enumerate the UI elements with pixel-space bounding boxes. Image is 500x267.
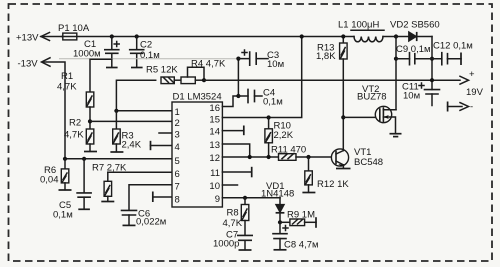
svg-text:C8 4,7м: C8 4,7м [284,240,319,251]
junction drain node [394,34,398,38]
svg-text:+13V: +13V [16,33,39,44]
svg-text:+: + [469,69,475,80]
svg-text:C9 0,1м: C9 0,1м [396,44,431,55]
pin 4 stub [151,141,173,150]
junction C4 [236,94,240,98]
wire pin 12 line [222,156,278,158]
wire top +13V rail [112,36,354,38]
capacitor C12 0,1u [432,41,473,66]
svg-text:10м: 10м [267,59,284,70]
svg-text:0,1м: 0,1м [53,210,73,221]
svg-text:9: 9 [215,194,220,205]
resistor R3 2,4K [110,111,141,152]
svg-text:C12 0,1м: C12 0,1м [433,41,473,52]
resistor R5 12K [146,65,178,84]
svg-text:C2: C2 [140,40,152,51]
junction pin15 rail [300,34,304,38]
svg-text:P1 10A: P1 10A [58,23,90,34]
transistor VT2 BUZ78 [357,84,402,137]
pin 14 stub [222,126,243,136]
wire R13 bottom to VT1 collector [342,59,344,151]
junction R12 base [306,155,310,159]
capacitor C9 0,1u [396,44,432,65]
wire pin 5 line [65,158,172,160]
svg-text:1,8K: 1,8K [316,51,336,62]
junction R1 R2 pin2 [88,119,92,123]
trimmer R4 4,7K [181,59,226,84]
wire pin 9 line [222,197,280,199]
svg-text:14: 14 [209,127,220,138]
junction pin1 R3 [114,109,118,113]
svg-text:8: 8 [175,194,180,205]
svg-text:0,04: 0,04 [40,175,59,186]
capacitor C1 1000u [73,37,119,68]
wire +13V input arrow [41,33,62,41]
diode VD1 1N4148 [261,181,294,222]
pin 8 stub [153,192,172,203]
pin 10 stub [222,184,237,186]
resistor R8 4,7K [223,198,249,236]
pin 3 stub [159,132,172,134]
junction C9 C12 [430,57,434,61]
svg-text:10: 10 [209,181,220,192]
svg-text:-: - [470,102,473,113]
diode VD2 SB560 [390,20,440,42]
resistor R13 1,8K [316,37,347,63]
wire cathode column [431,37,433,90]
svg-text:19V: 19V [466,87,484,98]
svg-text:2,4K: 2,4K [122,140,142,151]
resistor R11 470 [271,145,332,161]
resistor R7 2,7K [92,163,127,202]
capacitor C6 0,022u [122,209,167,228]
svg-text:BUZ78: BUZ78 [357,92,387,103]
svg-text:16: 16 [209,103,220,114]
svg-text:1: 1 [175,107,180,118]
svg-text:BC548: BC548 [354,157,383,168]
svg-text:1000м: 1000м [73,49,101,60]
junction C2 rail [135,34,139,38]
svg-text:R2: R2 [69,118,81,129]
junction C3 [236,57,240,61]
svg-text:R8: R8 [227,208,239,219]
svg-text:0,1м: 0,1м [140,50,160,61]
svg-text:13: 13 [209,140,220,151]
junction R4 output line [202,78,206,82]
junction R13 rail [341,34,345,38]
resistor R10 2,2K [265,118,294,158]
svg-text:10м: 10м [403,91,420,102]
minus output terminal [448,102,474,113]
wire R1 top to C1 minus [90,59,112,92]
capacitor C2 0,1u [130,37,160,68]
svg-text:12: 12 [209,153,220,164]
wire pin 2 line [90,120,172,122]
fuse P1 10A [58,23,112,40]
svg-text:D1 LM3524: D1 LM3524 [173,92,222,103]
svg-text:-13V: -13V [18,59,39,70]
junction output line [430,78,434,82]
capacitor C11 10u [402,82,440,106]
wire pin 1 line and riser to R5 [116,80,172,111]
op-amp IC D1 LM3524 [172,92,222,208]
wire pin 16 riser [222,59,238,107]
svg-text:1N4148: 1N4148 [261,189,294,200]
capacitor C4 0,1u [238,88,282,108]
svg-text:1000p: 1000p [213,239,239,250]
resistor R12 1K [302,157,349,193]
resistor R9 1M [280,210,316,228]
junction R10 top [267,115,271,119]
svg-text:4,7K: 4,7K [223,218,243,229]
svg-text:15: 15 [209,115,220,126]
wire pin 15 line to +13V rail [222,37,301,118]
junction C1 rail [110,34,114,38]
svg-text:11: 11 [210,168,220,179]
junction gate node [341,115,345,119]
wire pin 13 drop [222,144,249,157]
junction VD1 R9 C8 [278,220,282,224]
svg-text:L1 100μH: L1 100μH [338,20,380,31]
svg-text:R1: R1 [61,71,73,82]
svg-text:0,022м: 0,022м [136,217,166,228]
svg-text:R7 2,7K: R7 2,7K [92,163,127,174]
svg-text:4: 4 [175,142,180,153]
pin 11 stub [222,167,251,178]
svg-text:4,7K: 4,7K [64,130,84,141]
transistor VT1 BC548 [331,147,383,169]
wire R5 to R4 [174,79,181,81]
wire feedback/output line [204,79,460,81]
wire pin 7 line [129,185,172,211]
faint scan line [59,58,237,60]
capacitor C5 0,1u [53,159,91,221]
svg-text:R12 1K: R12 1K [317,179,349,190]
capacitor C3 10u [238,50,284,70]
svg-text:7: 7 [175,182,180,193]
wire rail to VD2 [383,36,409,38]
inductor L1 100uH [338,20,384,42]
svg-text:5: 5 [175,156,180,167]
wire drain column [395,37,397,110]
wire -13V input [42,58,66,159]
junction R8 pin9 [243,196,247,200]
svg-text:2,2K: 2,2K [274,130,294,141]
junction C9 left [394,57,398,61]
junction R10 bottom [267,155,271,159]
resistor R1 4,7K [57,71,94,107]
svg-text:6: 6 [175,169,180,180]
wire gate line [343,116,375,118]
svg-text:0,1м: 0,1м [263,97,283,108]
svg-text:2: 2 [175,118,180,129]
junction pin13 pin12 [248,155,252,159]
svg-text:4,7K: 4,7K [57,82,77,93]
resistor R6 0,04 [40,159,72,190]
capacitor C7 1000p [213,230,252,251]
junction C5 pin5 [82,157,86,161]
svg-text:3: 3 [175,130,180,141]
svg-text:R5 12K: R5 12K [146,65,178,76]
svg-text:VD2 SB560: VD2 SB560 [390,20,440,31]
wire R1 bottom to node [89,107,91,129]
capacitor C8 4,7u [273,222,319,250]
resistor R2 4,7K [64,118,97,152]
junction -13V pin5 [63,157,67,161]
output arrow + [460,69,484,98]
wire pin 6 line [108,171,172,173]
